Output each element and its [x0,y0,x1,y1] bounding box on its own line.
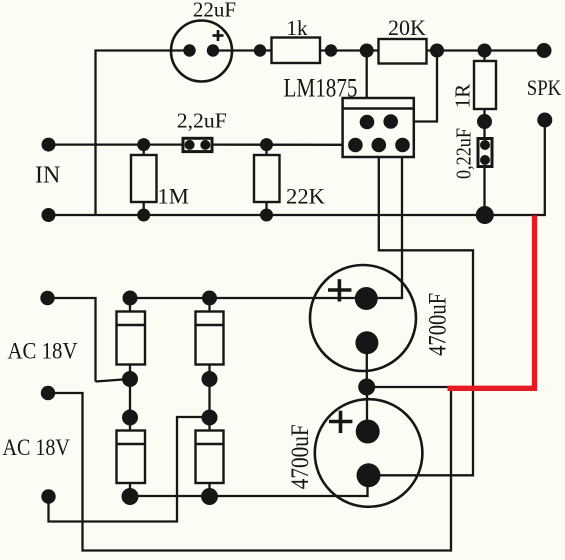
IN terminals [42,138,56,152]
wire diode column 2 segments [208,298,210,312]
svg-text:1k: 1k [287,16,309,40]
svg-text:IN: IN [35,163,60,189]
pin +Vcc [395,138,410,153]
svg-text:1M: 1M [158,184,189,209]
wire diode column 1 segments [129,298,131,312]
svg-text:AC 18V: AC 18V [2,435,70,460]
capacitor C2 4700uF top [310,265,416,371]
node bridge V- col1 [122,488,139,505]
wire 1k to 20K [320,49,379,51]
wire node A riser to -IN pin [366,51,368,123]
node junction between caps [358,379,375,396]
AC terminal 1 [40,291,54,305]
pin OUT [383,114,398,129]
wire 20K to SPK+ [427,49,545,51]
resistor 1M [131,138,157,221]
wire IN- ground rail to SPK- [49,120,545,215]
svg-text:AC 18V: AC 18V [8,339,78,364]
resistor 1R [474,61,496,109]
node bridge mid1 col1 [122,371,138,387]
svg-text:4700uF: 4700uF [423,293,452,356]
wire output feedback to pin [391,51,438,122]
wire AC1 slant into bridge [96,379,131,382]
node bridge mid1 col2 [202,371,218,387]
wire V+ rail to Vcc pin [130,145,402,298]
diode D2 [196,312,224,365]
node zobel ground [476,206,494,224]
resistor 1k [254,38,337,64]
wire top-left from ground rail up to C-in [96,51,191,216]
AC terminal 3 [41,489,55,503]
wire AC2 terminal run [49,417,210,522]
pin -Vee [372,138,387,153]
wire C-in right dot to R 1k [213,49,272,51]
svg-text:22uF: 22uF [193,0,236,22]
wire junction to C3 plus [366,387,368,432]
node bridge V- col2 [201,488,218,505]
resistor 20K [360,39,444,64]
svg-text:4700uF: 4700uF [285,424,314,489]
wire 22K stubs [265,145,267,155]
capacitor 2,2uF [183,138,212,151]
svg-text:LM1875: LM1875 [284,74,358,103]
capacitor 22uF [171,21,232,82]
wire C2 bottom to junction [366,343,368,387]
svg-text:20K: 20K [388,15,426,40]
svg-text:SPK: SPK [527,75,562,100]
wire IN+ rail left of 2,2uF [49,143,190,145]
wire 1M stubs [143,145,145,155]
wire IN+ rail right of 2,2uF to +IN pin [205,143,355,145]
node bridge V+ col2 [202,291,217,306]
svg-text:22K: 22K [286,184,325,209]
red ground wire [448,216,535,389]
resistor 22K [254,138,280,221]
SPK terminals [537,43,552,58]
wire zobel stubs [483,51,485,62]
wire ground run junction to AC center tap [48,387,451,551]
svg-text:2,2uF: 2,2uF [177,109,227,133]
node bridge V+ col1 [123,291,138,306]
node bridge mid2 col2 [202,410,218,426]
diode D3 [117,431,146,484]
wire V- from Vee pin down and to C3 bottom [369,145,474,475]
op-amp U1 LM1875 package [343,98,414,157]
wire AC1 terminal run [48,298,96,382]
pin +IN [348,138,363,153]
diode D4 [196,431,224,484]
diode D1 [117,312,146,365]
capacitor 0,22uF [478,139,492,167]
pin -IN [360,115,375,130]
svg-text:0,22uF: 0,22uF [452,128,476,179]
node bridge mid2 col1 [122,410,138,426]
capacitor C3 4700uF bottom [315,399,423,507]
svg-text:1R: 1R [451,84,475,109]
node below 1R [477,114,492,129]
AC terminal 2 center tap [41,386,55,400]
wire C3 bottom to V- rail [130,476,368,496]
node zobel top on output rail [478,44,492,58]
